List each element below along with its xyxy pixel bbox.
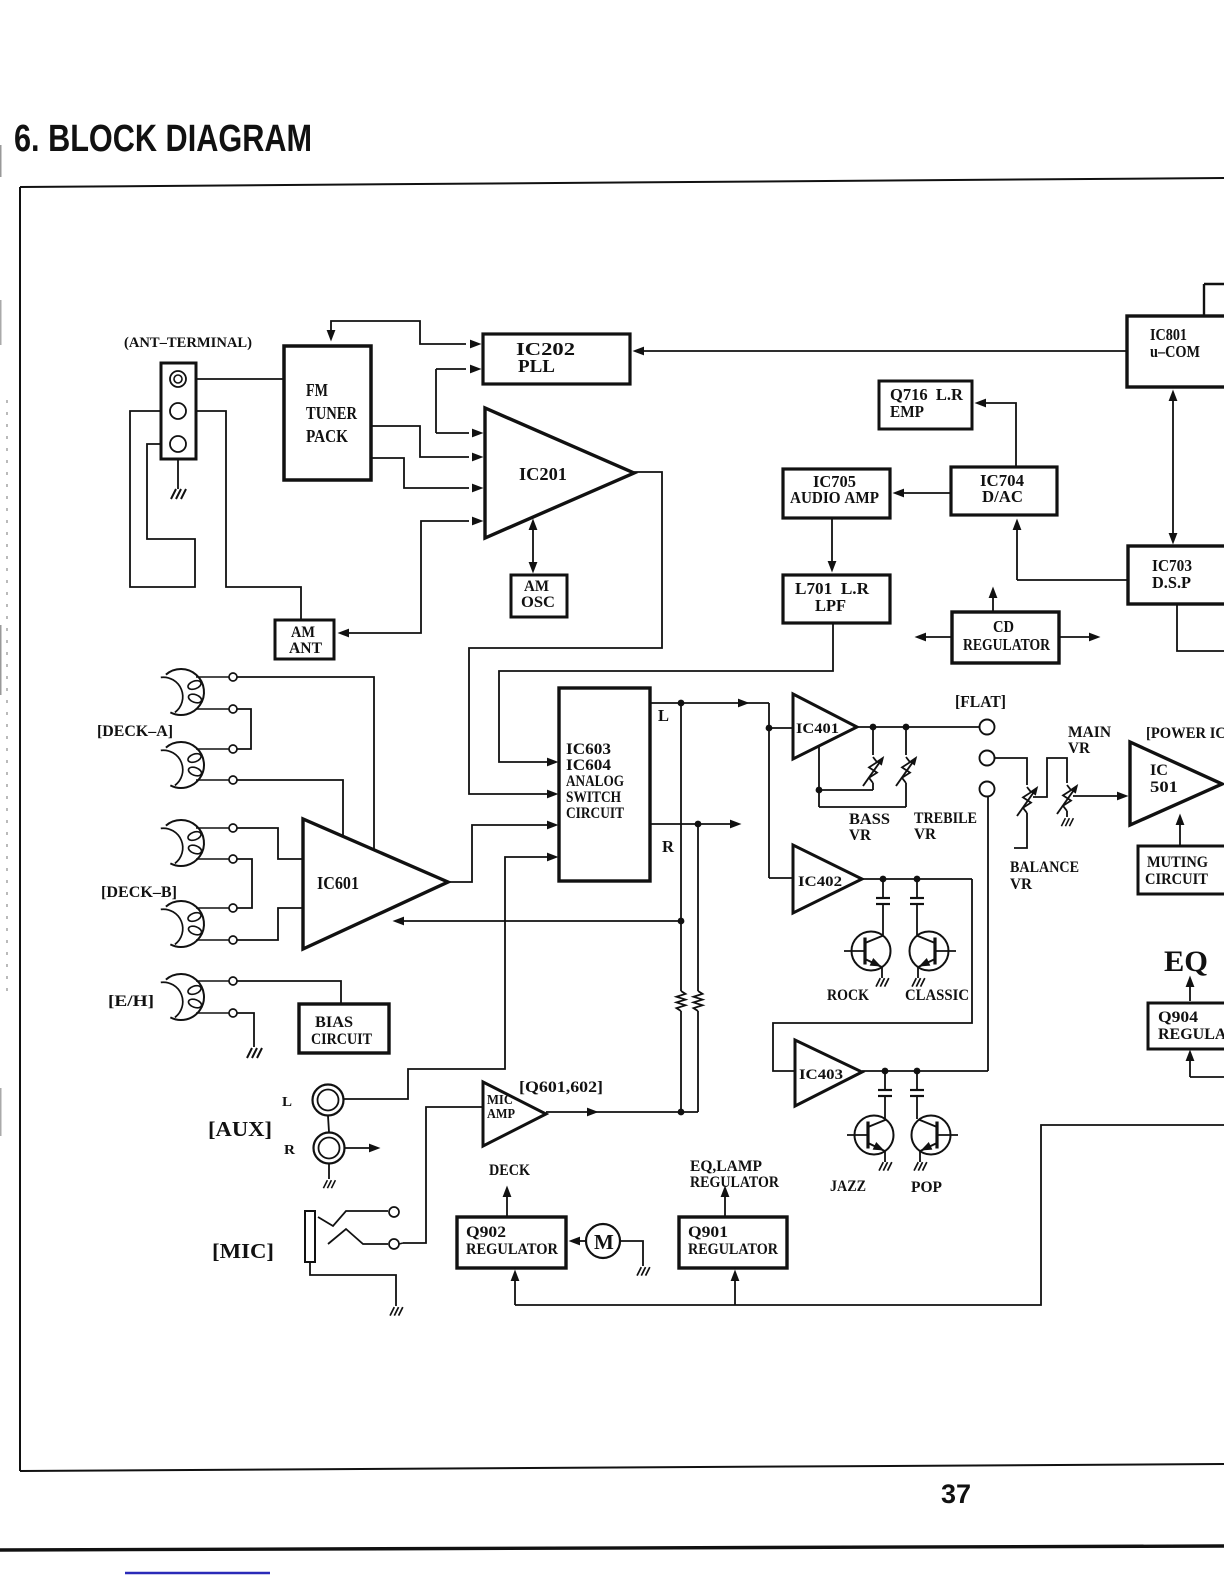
svg-text:Q902: Q902 — [466, 1224, 506, 1241]
svg-text:OSC: OSC — [521, 594, 555, 611]
AUX L jack — [313, 1085, 344, 1116]
wire circle3 to IC403 out — [987, 797, 989, 1071]
IC704 D/AC box — [951, 467, 1057, 515]
svg-text:PACK: PACK — [306, 426, 348, 446]
wire A1bot-A2top — [237, 709, 251, 749]
arrow IC705 to L701 — [831, 518, 833, 567]
wire IC704 to Q716 — [981, 403, 1016, 467]
tape head E/H — [161, 974, 204, 1020]
MIC jack sleeve — [305, 1211, 315, 1262]
tape head DECK-B bottom — [161, 901, 204, 947]
motor ground wire — [620, 1241, 643, 1266]
wire A1top to IC601 top — [237, 677, 374, 849]
MIC jack contact1 — [318, 1211, 388, 1226]
wire IC201 out to IC603 — [469, 472, 662, 794]
IC402 out wire — [862, 878, 972, 880]
svg-text:CIRCUIT: CIRCUIT — [1145, 871, 1208, 888]
svg-text:37: 37 — [941, 1479, 971, 1509]
svg-text:REGULATOR: REGULATOR — [688, 1241, 778, 1258]
svg-text:501: 501 — [1150, 779, 1178, 796]
FLAT jack circle3 — [980, 782, 995, 797]
op-amp IC402 — [793, 845, 862, 913]
wire B2bot to IC601 — [237, 908, 302, 940]
wire MIC AMP out — [546, 1111, 698, 1113]
tape head DECK-A top — [161, 669, 204, 715]
svg-text:D.S.P: D.S.P — [1152, 573, 1191, 592]
svg-text:EMP: EMP — [890, 402, 924, 421]
transistor CLASSIC — [910, 932, 949, 971]
svg-text:REGULATOR: REGULATOR — [1158, 1026, 1224, 1043]
svg-text:JAZZ: JAZZ — [830, 1178, 866, 1195]
op-amp IC501 — [1130, 742, 1222, 825]
svg-text:R: R — [662, 837, 675, 856]
BASS VR — [872, 727, 874, 755]
svg-text:PLL: PLL — [518, 356, 555, 376]
MUTING CIRCUIT box — [1138, 846, 1224, 894]
terminal circle bot — [170, 436, 186, 452]
svg-text:[DECK–B]: [DECK–B] — [101, 884, 177, 901]
wire MIC jack to MIC AMP — [403, 1107, 483, 1243]
AUX R jack — [314, 1133, 345, 1164]
wire L to IC401/IC402 — [768, 703, 770, 878]
head terminal circles — [229, 673, 237, 681]
Q902 REGULATOR box — [457, 1217, 566, 1268]
wire tuner-top loop to IC202 — [331, 321, 466, 344]
arrow MUTING to IC501 — [1179, 819, 1181, 846]
svg-text:IC601: IC601 — [317, 873, 359, 893]
svg-text:BASS: BASS — [849, 811, 890, 828]
FLAT jack circle2 — [980, 751, 995, 766]
resistor R branch — [694, 991, 703, 1011]
capacitor JAZZ — [884, 1071, 886, 1090]
svg-text:R: R — [284, 1143, 296, 1158]
svg-text:L: L — [658, 706, 669, 725]
bottom rule — [0, 1546, 1224, 1550]
op-amp IC601 — [303, 819, 448, 949]
svg-text:ANALOG: ANALOG — [566, 773, 624, 790]
svg-text:SWITCH: SWITCH — [566, 789, 621, 806]
MIC jack contact2 — [328, 1229, 388, 1244]
feedback arrow into IC601 — [397, 920, 681, 922]
wire coax to FM tuner — [196, 378, 283, 380]
svg-text:IC401: IC401 — [796, 721, 839, 737]
motor M — [586, 1224, 620, 1258]
ground under terminal — [177, 459, 179, 489]
wire R branch down — [697, 824, 699, 991]
arrow IC801-IC703 both ways — [1172, 395, 1174, 540]
BALANCE wiper to MAIN — [1033, 758, 1067, 797]
wire IC703 to IC704 — [1017, 579, 1128, 581]
IC801 u-COM box — [1127, 316, 1224, 387]
svg-text:MUTING: MUTING — [1147, 854, 1208, 871]
head stub wires — [196, 676, 229, 678]
wire tuner out1 to IC201 — [371, 426, 469, 457]
IC705 AUDIO AMP box — [783, 469, 890, 518]
blue underline mark — [125, 1572, 270, 1574]
wire AUX to IC603 — [344, 857, 553, 1099]
wire B1top to IC601 — [237, 828, 302, 859]
op-amp IC201 — [485, 408, 634, 538]
svg-text:ANT: ANT — [289, 640, 322, 657]
wire IC601 out to IC603 — [448, 825, 553, 882]
tape head DECK-A bottom — [161, 742, 204, 788]
coax jack — [170, 371, 186, 387]
svg-text:MAIN: MAIN — [1068, 724, 1111, 741]
svg-text:(ANT–TERMINAL): (ANT–TERMINAL) — [124, 335, 252, 351]
op-amp IC401 — [793, 694, 857, 759]
L701 LPF box — [783, 575, 890, 623]
wire tuner out2 to IC201 — [371, 458, 469, 488]
svg-text:EQ,LAMP: EQ,LAMP — [690, 1158, 762, 1175]
svg-text:TUNER: TUNER — [306, 403, 358, 423]
wire L branch to mix — [680, 1011, 682, 1112]
arrow Q901 to EQLAMP — [724, 1191, 726, 1217]
svg-text:MIC: MIC — [487, 1093, 513, 1108]
Q716 EMP box — [879, 381, 972, 429]
arrow Q904 to EQ — [1189, 981, 1191, 1001]
wire L branch down — [680, 703, 682, 991]
node L out — [650, 702, 769, 704]
BIAS CIRCUIT box — [299, 1004, 389, 1053]
wire loop mid-bot terminals — [130, 411, 195, 587]
wire B1bot-B2top — [237, 859, 252, 908]
svg-text:AUDIO AMP: AUDIO AMP — [790, 488, 879, 507]
svg-text:BIAS: BIAS — [315, 1014, 353, 1031]
terminal circle mid — [170, 403, 186, 419]
svg-text:AMP: AMP — [487, 1107, 515, 1122]
svg-text:Q904: Q904 — [1158, 1009, 1198, 1026]
svg-text:[E/H]: [E/H] — [108, 993, 154, 1010]
wire R branch to mix — [697, 1011, 699, 1112]
tape head DECK-B top — [161, 820, 204, 866]
wire circle2 to BALANCE — [994, 758, 1027, 785]
MAIN wiper to IC501 — [1073, 795, 1123, 797]
AM ANT box — [275, 620, 334, 659]
scan edge artifacts — [6, 400, 8, 1000]
svg-text:AM: AM — [291, 624, 315, 641]
CD REGULATOR box — [952, 612, 1059, 663]
AUX jack link — [328, 1116, 329, 1132]
svg-text:IC603: IC603 — [566, 741, 611, 758]
svg-text:AM: AM — [524, 578, 549, 595]
svg-text:CIRCUIT: CIRCUIT — [311, 1031, 372, 1048]
IC202 PLL box — [483, 334, 630, 384]
wire EHtop to BIAS — [237, 981, 341, 1003]
supply wire bottom — [515, 1125, 1224, 1305]
svg-text:IC604: IC604 — [566, 757, 611, 774]
resistor L branch — [677, 991, 686, 1011]
svg-text:IC: IC — [1150, 762, 1168, 779]
svg-text:REGULATOR: REGULATOR — [466, 1241, 558, 1258]
AM OSC box — [511, 575, 567, 617]
svg-text:[POWER IC: [POWER IC — [1146, 725, 1224, 742]
svg-text:M: M — [594, 1230, 614, 1254]
wire AM ANT to IC201 — [340, 521, 469, 633]
capacitor POP — [916, 1071, 918, 1090]
svg-text:D/AC: D/AC — [982, 487, 1023, 506]
svg-text:DECK: DECK — [489, 1162, 530, 1179]
arrow Q902 to DECK — [506, 1191, 508, 1217]
svg-text:VR: VR — [914, 826, 936, 843]
svg-text:CIRCUIT: CIRCUIT — [566, 805, 624, 822]
svg-text:6. BLOCK DIAGRAM: 6. BLOCK DIAGRAM — [14, 118, 312, 160]
svg-text:[FLAT]: [FLAT] — [955, 692, 1006, 711]
wire IC801 to IC202 — [640, 350, 1127, 352]
MIC sleeve ground — [310, 1262, 396, 1306]
svg-text:EQ: EQ — [1164, 945, 1208, 978]
IC401 out wire — [857, 726, 980, 728]
wire A2bot to IC601 top — [237, 780, 343, 836]
svg-text:CLASSIC: CLASSIC — [905, 987, 969, 1004]
arrow supply to Q901 — [734, 1275, 736, 1305]
wire IC704 to IC705 — [898, 492, 951, 494]
transistor ROCK — [852, 932, 891, 971]
capacitor ROCK — [882, 879, 884, 898]
svg-text:[AUX]: [AUX] — [208, 1117, 272, 1141]
AUX R out arrow — [345, 1147, 374, 1149]
FM TUNER PACK box — [284, 346, 371, 480]
op-amp MIC AMP Q601 — [483, 1082, 546, 1146]
MAIN VR — [1063, 785, 1071, 811]
arrow M to Q902 — [572, 1240, 586, 1242]
svg-text:TREBILE: TREBILE — [914, 810, 977, 827]
IC703 DSP box — [1128, 546, 1224, 604]
arrow IC201-AM OSC — [532, 523, 534, 569]
svg-text:Q901: Q901 — [688, 1224, 728, 1241]
diagram border frame — [20, 178, 1224, 187]
wire mid terminal to AM ANT — [196, 411, 301, 619]
transistor JAZZ — [855, 1116, 894, 1155]
CD regulator stub arrows — [921, 636, 952, 638]
svg-text:[Q601,602]: [Q601,602] — [519, 1079, 603, 1096]
svg-text:u–COM: u–COM — [1150, 342, 1200, 361]
wire branch to IC202/IC201 — [435, 369, 437, 433]
svg-text:POP: POP — [911, 1179, 942, 1196]
svg-text:FM: FM — [306, 380, 328, 400]
svg-text:REGULATOR: REGULATOR — [690, 1174, 779, 1191]
transistor POP — [912, 1116, 951, 1155]
wire EHbot to ground — [237, 1013, 254, 1047]
node R out — [650, 823, 736, 825]
capacitor CLASSIC — [916, 879, 918, 898]
Q904 REGULATOR box — [1148, 1003, 1224, 1049]
svg-text:[DECK–A]: [DECK–A] — [97, 723, 173, 740]
TREBLE VR — [905, 727, 907, 755]
wire IC402 to IC403 — [773, 879, 972, 1071]
wire L701 to IC603 — [499, 623, 833, 762]
antenna terminal strip — [161, 363, 196, 459]
svg-text:[MIC]: [MIC] — [212, 1239, 274, 1263]
BALANCE VR — [1023, 787, 1031, 813]
partial box above IC801 — [1203, 284, 1205, 315]
op-amp IC403 — [795, 1040, 862, 1106]
Q901 REGULATOR box — [679, 1217, 787, 1268]
svg-text:VR: VR — [1010, 876, 1032, 893]
IC603 analog switch box — [559, 688, 650, 881]
svg-text:REGULATOR: REGULATOR — [963, 635, 1051, 654]
wire IC703 bottom right — [1177, 604, 1224, 651]
IC401 feedback loop — [818, 746, 820, 807]
svg-text:L: L — [282, 1095, 292, 1110]
FLAT jack circle1 — [980, 720, 995, 735]
svg-text:LPF: LPF — [815, 596, 846, 615]
svg-text:IC402: IC402 — [798, 874, 842, 890]
arrow supply to Q902 — [514, 1275, 516, 1305]
AUX R ground — [328, 1164, 330, 1179]
svg-text:IC403: IC403 — [799, 1067, 843, 1083]
svg-text:IC201: IC201 — [519, 464, 567, 484]
svg-text:ROCK: ROCK — [827, 987, 869, 1004]
svg-text:CD: CD — [993, 617, 1014, 636]
svg-text:VR: VR — [1068, 740, 1090, 757]
wire into Q904 bottom — [1190, 1076, 1224, 1078]
svg-text:VR: VR — [849, 827, 871, 844]
IC403 out wire — [862, 1070, 988, 1072]
svg-text:BALANCE: BALANCE — [1010, 859, 1079, 876]
